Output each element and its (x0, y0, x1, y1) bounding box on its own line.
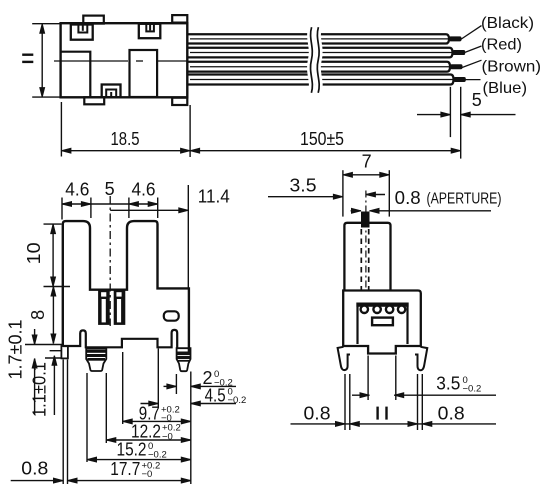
svg-text:5: 5 (105, 179, 115, 199)
dimension 3.5 -0/-0.2 (bottom notch) (352, 374, 496, 398)
svg-text:3.5: 3.5 (436, 374, 460, 394)
svg-text:−0.2: −0.2 (463, 383, 482, 394)
wire break mark (left wavy line) (310, 27, 312, 93)
svg-text:7: 7 (362, 151, 372, 171)
dimension 0.8 (tab offset) (11, 459, 63, 483)
svg-text:11.4: 11.4 (198, 186, 230, 206)
svg-text:4.6: 4.6 (65, 180, 89, 200)
top view: upper-left mounting tab (83, 16, 104, 24)
wire (Brown): stripped tip (450, 64, 463, 69)
front view: aperture slot on right face (164, 311, 179, 320)
label (Blue) with leader (462, 80, 527, 97)
dimension 7 (tower width) (343, 151, 389, 216)
svg-text:12.2: 12.2 (131, 422, 161, 442)
front view: body outline (prongs, slot, base) (63, 221, 189, 352)
dimension 150±5 (wire length) (190, 129, 461, 153)
svg-text:150±5: 150±5 (300, 129, 344, 149)
svg-text:−0: −0 (162, 431, 173, 442)
side view: optical centerline (dash-dot) (365, 191, 367, 291)
dimension 17.7 +0.2/-0 (68, 459, 191, 483)
front view: optical axis centerline (dash-dot) (109, 196, 111, 326)
svg-text:0.8: 0.8 (21, 459, 48, 479)
dimension 5 (stripped wire end) (417, 87, 516, 159)
dimension 5 (slot width) (105, 179, 115, 199)
top view: left clip detail (71, 25, 93, 40)
svg-text:15.2: 15.2 (117, 440, 147, 460)
dimension 8 (lower body height) (28, 287, 56, 344)
side view extension lines below (345, 356, 422, 431)
wire break mark (right wavy line) (317, 27, 319, 93)
side view: terminal circles (359, 304, 406, 314)
side view: inner housing with 4 terminals (356, 303, 408, 345)
dimension 15.2 -0/-0.2 (87, 440, 191, 462)
label (Brown) with leader (461, 59, 541, 76)
svg-text:9.7: 9.7 (139, 403, 160, 423)
front view: left emitter window (98, 290, 110, 325)
svg-text:0.8: 0.8 (395, 188, 421, 208)
svg-text:4.6: 4.6 (132, 180, 156, 200)
side view: aperture black block (361, 212, 370, 228)
wire (Red): stripped tip (453, 50, 466, 55)
wire (Blue): insulation outline (188, 75, 453, 85)
svg-text:3.5: 3.5 (290, 175, 317, 195)
wire (Black): conductor centerline (190, 38, 448, 40)
wire (Red): insulation outline (188, 48, 452, 58)
svg-text:(Brown): (Brown) (482, 59, 542, 76)
top view: component body outline (61, 23, 188, 97)
top view: right clip detail (139, 24, 161, 38)
dimension 3.5 (edge to optical center) (268, 175, 385, 199)
label (Red) with leader (462, 37, 522, 54)
wire (Brown): insulation outline (188, 62, 450, 72)
svg-text:−0.2: −0.2 (228, 395, 247, 406)
dimension 4.6 (left prong width) (62, 180, 158, 220)
dimension 9.7 +0.2/-0 (123, 403, 191, 424)
top view: lower-left mounting tab (84, 97, 104, 104)
top view: bottom-center clip detail (102, 85, 121, 98)
svg-text:−0.2: −0.2 (148, 449, 167, 460)
dimension 4.5 -0/-0.2 (141, 385, 247, 406)
svg-text:1.7±0.1: 1.7±0.1 (6, 320, 26, 380)
svg-text:18.5: 18.5 (111, 129, 140, 149)
dimension 4.6 (right prong width) (129, 180, 158, 219)
side view: tower outline (344, 223, 390, 291)
wire (Red): conductor centerline (190, 52, 452, 54)
top view: center inner block (130, 50, 158, 97)
extension lines below front view (63, 349, 191, 485)
svg-text:0.8: 0.8 (438, 403, 465, 423)
top view: lower-right mounting tab (172, 98, 187, 105)
front view: bottom edge with hooks and step (63, 330, 177, 348)
dimension 12.2 +0.2/-0 (106, 422, 191, 443)
dimension 1.1±0.1 (claw step) (29, 351, 62, 417)
svg-text:(APERTURE): (APERTURE) (427, 191, 502, 208)
side view: small inner rectangle (372, 318, 393, 326)
label (Black) with leader (461, 15, 534, 39)
svg-text:0.8: 0.8 (304, 403, 331, 423)
front view: left bottom tab (61, 346, 68, 358)
wire (Black): stripped tip (449, 36, 462, 41)
dimension 18.5 (body width) (61, 102, 190, 157)
svg-text:8: 8 (28, 310, 48, 320)
dimension 0.8 (APERTURE) (351, 188, 502, 213)
dimension 11 (top view height) (22, 24, 61, 97)
top view: upper-right mounting tab (172, 15, 187, 23)
wire (Blue): stripped tip (454, 77, 466, 82)
svg-text:−0: −0 (142, 469, 153, 480)
top view: horizontal centerline (54, 60, 188, 62)
wire (Black): insulation outline (188, 34, 449, 43)
svg-text:5: 5 (472, 90, 482, 110)
dimension 2 -0/-0.2 (claw tip width) (164, 368, 237, 389)
wire (Blue): conductor centerline (190, 79, 453, 81)
dimension 10 (prong height) (24, 224, 70, 286)
front view: left mounting claw (86, 348, 106, 371)
svg-text:(Black): (Black) (481, 15, 534, 32)
side view: right hook leg (415, 347, 427, 370)
dimension 1.7±0.1 (tab depth) (6, 320, 62, 415)
top view: left inner partition (61, 52, 91, 97)
wire (Brown): conductor centerline (190, 66, 449, 68)
front view: right mounting claw (177, 348, 191, 371)
front view: right detector window (114, 290, 126, 325)
side view: hidden aperture channel (dashed) (361, 229, 368, 290)
svg-text:(Blue): (Blue) (483, 80, 528, 97)
svg-text:17.7: 17.7 (110, 459, 140, 479)
svg-text:1.1±0.1: 1.1±0.1 (29, 362, 49, 417)
side view: body outline (343, 291, 421, 354)
side view: left hook leg (338, 347, 350, 370)
svg-text:4.5: 4.5 (205, 385, 226, 405)
svg-text:(Red): (Red) (481, 37, 522, 54)
dimension 11.4 (center to right edge) (110, 185, 230, 288)
svg-text:10: 10 (24, 242, 44, 264)
dimension 0.8 / 11 / 0.8 (bottom of side view) (291, 403, 497, 426)
